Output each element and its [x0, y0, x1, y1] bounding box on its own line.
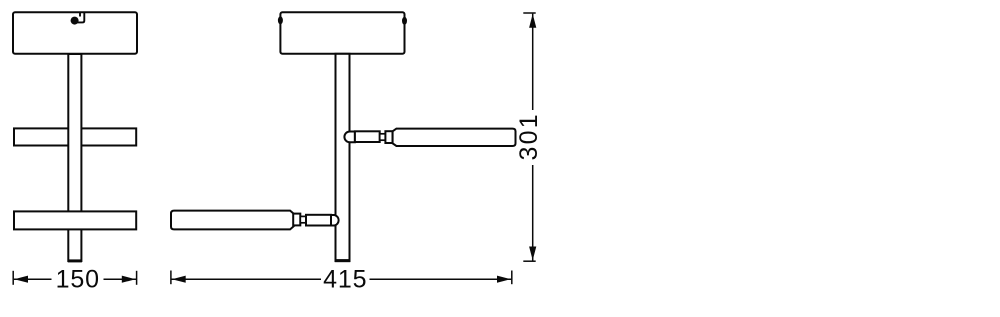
canopy right screw bump	[402, 17, 407, 25]
dimension 150 arrowheads	[14, 276, 135, 283]
dimension 415 extension ticks	[171, 271, 512, 285]
upper cross-bar front view	[14, 128, 136, 145]
canopy box side view	[280, 12, 404, 54]
dimension 301 arrowheads	[529, 14, 536, 260]
stem bottom cap front view	[68, 259, 82, 262]
cable entry hook	[76, 13, 84, 23]
dimension 301 line	[532, 14, 534, 261]
svg-text:415: 415	[323, 266, 367, 294]
lower arm tube end cap	[293, 214, 300, 226]
stem side view	[336, 54, 350, 261]
dimension 415 line	[172, 278, 512, 280]
upper arm knob joint	[344, 132, 355, 143]
dimension 415 arrowheads	[172, 276, 511, 283]
dimension 150 extension ticks	[13, 271, 136, 285]
svg-text:150: 150	[56, 266, 100, 294]
lower arm tube	[171, 211, 294, 230]
canopy left screw bump	[278, 16, 283, 24]
upper arm tube end cap	[385, 131, 392, 143]
canopy box front view	[13, 12, 137, 54]
lower arm knob joint	[331, 215, 339, 226]
dimension 301 extension ticks	[523, 13, 535, 261]
upper arm tube	[393, 129, 516, 146]
lower arm pivot cylinder	[306, 215, 331, 226]
dimension 150 line	[14, 278, 136, 280]
svg-text:301: 301	[515, 112, 543, 160]
stem front view	[68, 54, 81, 261]
lower cross-bar front view	[14, 211, 136, 229]
lower arm joint neck	[300, 216, 306, 222]
upper arm joint neck	[380, 134, 386, 140]
cable entry dot	[71, 17, 79, 25]
upper arm pivot cylinder	[355, 131, 380, 142]
stem bottom cap side view	[335, 259, 350, 262]
